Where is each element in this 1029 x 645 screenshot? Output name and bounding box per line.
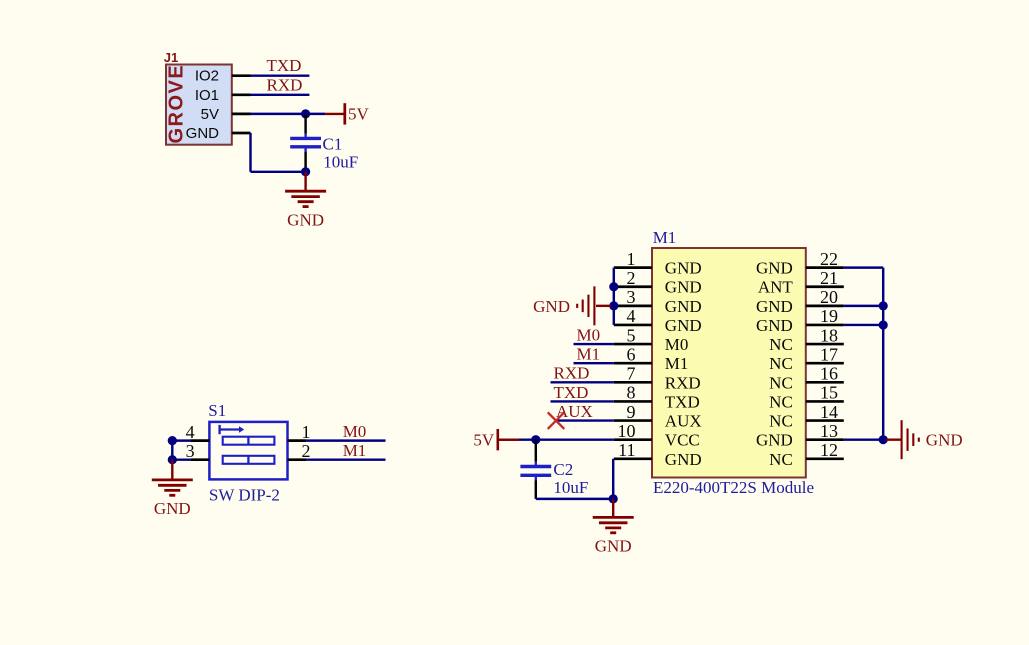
svg-text:5V: 5V — [348, 105, 370, 124]
svg-text:18: 18 — [820, 325, 838, 345]
svg-text:RXD: RXD — [554, 364, 590, 383]
svg-text:17: 17 — [820, 344, 838, 364]
svg-text:2: 2 — [627, 268, 636, 288]
svg-text:RXD: RXD — [665, 373, 701, 392]
svg-text:IO1: IO1 — [195, 87, 219, 104]
svg-text:VCC: VCC — [665, 431, 700, 450]
svg-text:5: 5 — [627, 325, 636, 345]
svg-text:GND: GND — [665, 278, 702, 297]
svg-text:M0: M0 — [665, 335, 689, 354]
svg-text:5V: 5V — [473, 430, 495, 449]
svg-text:GND: GND — [756, 259, 793, 278]
svg-text:15: 15 — [820, 383, 838, 403]
svg-text:GND: GND — [186, 125, 220, 142]
svg-text:10uF: 10uF — [323, 153, 358, 172]
svg-text:13: 13 — [820, 421, 838, 441]
svg-text:20: 20 — [820, 287, 838, 307]
svg-text:C2: C2 — [553, 460, 573, 479]
svg-text:4: 4 — [627, 306, 636, 326]
svg-text:GND: GND — [756, 297, 793, 316]
svg-text:GND: GND — [595, 537, 632, 556]
svg-text:NC: NC — [769, 450, 793, 469]
svg-text:NC: NC — [769, 392, 793, 411]
svg-text:22: 22 — [820, 249, 838, 269]
svg-text:19: 19 — [820, 306, 838, 326]
svg-text:RXD: RXD — [267, 75, 303, 94]
svg-text:GND: GND — [756, 316, 793, 335]
svg-text:1: 1 — [627, 249, 636, 269]
svg-text:M1: M1 — [343, 441, 367, 460]
svg-text:16: 16 — [820, 364, 838, 384]
svg-text:TXD: TXD — [665, 392, 700, 411]
svg-text:11: 11 — [618, 440, 635, 460]
svg-text:NC: NC — [769, 354, 793, 373]
svg-text:M1: M1 — [653, 228, 677, 247]
svg-text:NC: NC — [769, 412, 793, 431]
svg-text:2: 2 — [302, 441, 311, 461]
svg-text:GND: GND — [665, 259, 702, 278]
svg-text:1: 1 — [302, 422, 311, 442]
svg-text:14: 14 — [820, 402, 838, 422]
svg-text:TXD: TXD — [554, 383, 589, 402]
svg-text:SW DIP-2: SW DIP-2 — [209, 485, 280, 504]
svg-text:9: 9 — [627, 402, 636, 422]
svg-text:21: 21 — [820, 268, 838, 288]
svg-text:GND: GND — [665, 450, 702, 469]
svg-text:AUX: AUX — [556, 402, 593, 421]
svg-text:6: 6 — [627, 344, 636, 364]
svg-text:IO2: IO2 — [195, 68, 219, 85]
svg-text:8: 8 — [627, 383, 636, 403]
svg-text:TXD: TXD — [267, 56, 302, 75]
svg-text:NC: NC — [769, 335, 793, 354]
svg-text:10: 10 — [618, 421, 636, 441]
svg-text:GND: GND — [533, 297, 570, 316]
svg-text:GROVE: GROVE — [166, 64, 188, 144]
svg-text:10uF: 10uF — [553, 478, 588, 497]
svg-text:GND: GND — [665, 316, 702, 335]
svg-text:GND: GND — [287, 211, 324, 230]
svg-text:J1: J1 — [164, 50, 178, 65]
svg-text:M0: M0 — [343, 422, 367, 441]
svg-text:ANT: ANT — [758, 278, 794, 297]
svg-text:4: 4 — [186, 422, 195, 442]
svg-text:M1: M1 — [665, 354, 689, 373]
svg-text:12: 12 — [820, 440, 838, 460]
svg-text:AUX: AUX — [665, 412, 702, 431]
svg-text:GND: GND — [154, 499, 191, 518]
svg-text:C1: C1 — [323, 134, 343, 153]
svg-text:NC: NC — [769, 373, 793, 392]
svg-text:GND: GND — [926, 431, 963, 450]
svg-text:GND: GND — [665, 297, 702, 316]
svg-text:S1: S1 — [208, 401, 226, 420]
svg-text:M1: M1 — [577, 345, 601, 364]
svg-text:7: 7 — [627, 364, 636, 384]
svg-text:3: 3 — [627, 287, 636, 307]
svg-text:M0: M0 — [577, 325, 601, 344]
svg-text:5V: 5V — [201, 106, 219, 123]
svg-text:E220-400T22S Module: E220-400T22S Module — [653, 478, 814, 497]
svg-text:GND: GND — [756, 431, 793, 450]
svg-text:3: 3 — [186, 441, 195, 461]
